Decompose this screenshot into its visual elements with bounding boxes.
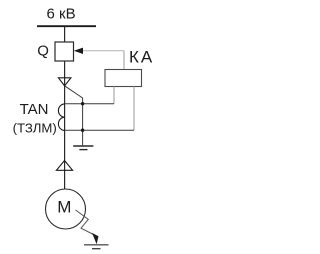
- svg-text:Q: Q: [37, 42, 49, 59]
- wire KA terminal 2 horizontal to CT: [65, 129, 134, 131]
- earth fault arrowhead: [92, 233, 99, 244]
- ground lower bar1: [84, 244, 109, 246]
- trip arrowhead into Q: [74, 48, 83, 54]
- breaker Q box: [55, 42, 74, 61]
- CT TAN winding arc 1: [58, 104, 64, 117]
- svg-text:(ТЗЛМ): (ТЗЛМ): [13, 120, 57, 135]
- ground upper bar1: [73, 145, 93, 147]
- ground upper bar2: [79, 149, 87, 151]
- wire KA terminal 2 vertical: [133, 87, 135, 131]
- relay KA box: [105, 70, 142, 87]
- wire trip line from KA to arrow: [83, 50, 124, 52]
- wire KA terminal 1 vertical: [113, 87, 115, 104]
- cable termination triangle lower: [56, 161, 72, 171]
- svg-text:КА: КА: [129, 48, 154, 67]
- busbar 6 kV: [37, 25, 96, 27]
- wire KA terminal 1 horizontal to CT: [65, 103, 114, 105]
- motor circle M: [46, 189, 86, 229]
- wire main cable: [64, 61, 66, 189]
- wire busbar to breaker Q: [64, 27, 66, 42]
- earth fault lightning bolt: [76, 210, 94, 235]
- cable termination triangle upper: [58, 78, 71, 86]
- junction dot sheath-wire2: [81, 129, 84, 132]
- ground lower bar2: [92, 248, 101, 250]
- svg-text:TAN: TAN: [20, 101, 49, 118]
- wire corner down to KA: [123, 51, 125, 70]
- svg-text:6 кВ: 6 кВ: [47, 6, 76, 23]
- junction dot sheath-wire1: [81, 102, 84, 105]
- wire cable sheath diagonal: [65, 86, 83, 146]
- svg-text:M: M: [57, 197, 71, 216]
- CT TAN winding arc 2: [58, 117, 64, 130]
